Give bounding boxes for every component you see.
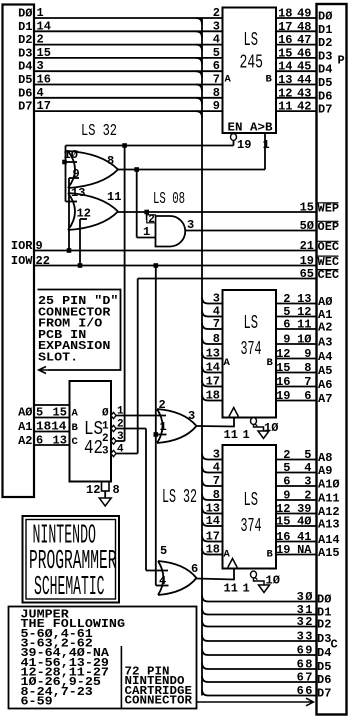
svg-text:3: 3	[213, 448, 220, 462]
svg-text:D5: D5	[318, 76, 332, 90]
wire WEC net vertical to OR3 pin1	[155, 266, 157, 435]
pin 2 bubble (LS42)	[111, 425, 116, 431]
svg-text:6: 6	[213, 59, 220, 73]
wire bus tap to U5 pin 7	[202, 323, 208, 329]
wire WEC net continues to gate4 pin4	[155, 435, 157, 586]
wire U5 pin 2 to connector	[276, 303, 316, 305]
wire LS245 B pin 17 to connector 48	[276, 30, 316, 32]
svg-text:13: 13	[278, 73, 292, 87]
wire D2 left bus row	[34, 44, 223, 46]
svg-text:12: 12	[86, 483, 100, 497]
wire LS08 pin2 stub	[146, 212, 148, 220]
svg-text:1: 1	[243, 582, 250, 596]
svg-text:4: 4	[213, 461, 220, 475]
node junction EN/pin10	[62, 160, 67, 165]
wire bus tap to connector 66 (D7 CHR)	[202, 690, 208, 696]
wire DIR vertical	[264, 133, 266, 170]
wire riser IOW to OR2 pin12	[79, 219, 81, 266]
wire U5 OE to ground	[254, 424, 264, 431]
svg-text:IOR: IOR	[11, 239, 33, 253]
svg-text:17: 17	[37, 99, 51, 113]
wire U6 pin 5 to connector	[276, 472, 316, 474]
node junction EN/IOR-tap	[122, 143, 127, 148]
svg-text:2: 2	[102, 433, 109, 445]
svg-text:1: 1	[263, 138, 270, 152]
svg-text:6-59: 6-59	[21, 696, 53, 709]
wire bus tap to connector 33 (D3 CHR)	[202, 635, 208, 641]
svg-text:13: 13	[297, 292, 311, 306]
svg-text:9: 9	[213, 99, 220, 113]
pin 1 bubble (U6 OE)	[251, 571, 257, 578]
svg-text:6: 6	[283, 475, 290, 489]
svg-text:A5: A5	[318, 364, 332, 378]
wire LS245 B pin 12 to connector 43	[276, 97, 316, 99]
svg-text:69: 69	[297, 644, 314, 658]
svg-text:8: 8	[107, 154, 114, 168]
wire CEC vertical to LS42 pin4	[137, 279, 139, 454]
wire D7 left bus row	[34, 110, 223, 112]
svg-text:6: 6	[304, 389, 311, 403]
title box inner	[26, 520, 116, 600]
svg-text:245: 245	[240, 52, 264, 74]
pin 8 stub (LS42)	[102, 482, 110, 492]
wire CEC row	[138, 278, 316, 280]
wire OR2 output / WEP row	[118, 211, 316, 213]
jumper note divider	[120, 646, 122, 709]
svg-text:47: 47	[297, 33, 311, 47]
overline WEC	[318, 255, 339, 257]
svg-text:LS 08: LS 08	[153, 190, 185, 209]
svg-text:1: 1	[102, 421, 109, 433]
wire data bus spine	[201, 18, 203, 696]
svg-text:3: 3	[304, 475, 311, 489]
wire bus tap to U5 pin 4	[202, 311, 208, 317]
wire bus tap to U6 pin 3	[202, 454, 208, 460]
node junction IOW/WEC-drop	[154, 263, 159, 268]
svg-text:66: 66	[297, 684, 314, 698]
wire LS42 pin2 right	[116, 428, 146, 430]
svg-text:A11: A11	[318, 492, 340, 506]
svg-text:IOW: IOW	[11, 254, 33, 268]
svg-text:A3: A3	[318, 336, 332, 350]
IC U6 LS374 body	[223, 445, 277, 569]
wire bus tap to connector 30 (D0 CHR)	[202, 596, 208, 602]
wire bus tap to U5 pin 8	[202, 338, 208, 344]
wire gate4 output to U6 clock	[197, 569, 235, 580]
svg-text:1Ø: 1Ø	[297, 333, 311, 347]
wire LS245 B pin 11 to connector 42	[276, 110, 316, 112]
svg-text:7: 7	[213, 73, 220, 87]
svg-text:18: 18	[206, 543, 220, 557]
wire D3 left bus row	[34, 57, 223, 59]
svg-text:12: 12	[276, 347, 290, 361]
svg-text:4: 4	[37, 86, 44, 100]
clock wedge U5	[229, 408, 238, 417]
node junction OR1out/LS08pin1	[134, 167, 139, 172]
svg-text:C: C	[72, 436, 79, 448]
svg-text:5Ø: 5Ø	[300, 219, 314, 233]
svg-text:A1: A1	[18, 420, 32, 434]
clock wedge U6	[228, 559, 237, 568]
IC U1 LS245 body	[223, 8, 277, 134]
svg-text:A7: A7	[318, 392, 332, 406]
svg-text:LS: LS	[244, 489, 259, 511]
svg-text:B: B	[267, 357, 274, 369]
pin 19 bubble (LS245 OE)	[231, 134, 237, 141]
wire D4 left bus row	[34, 70, 223, 72]
svg-text:D3: D3	[318, 49, 332, 63]
svg-text:68: 68	[297, 658, 314, 672]
wire bus tap to connector 69 (D4 CHR)	[202, 649, 208, 655]
IC U5 LS374 body	[223, 290, 277, 418]
svg-text:11: 11	[224, 428, 238, 442]
wire IOW row / WEC	[34, 265, 316, 267]
callout box 25-pin note	[38, 290, 121, 371]
svg-text:5: 5	[160, 544, 167, 558]
node D3 bus tap	[196, 58, 202, 64]
svg-text:D4: D4	[18, 60, 32, 74]
svg-text:2: 2	[213, 6, 220, 20]
svg-text:SLOT.: SLOT.	[38, 351, 78, 365]
svg-text:7: 7	[213, 474, 220, 488]
svg-text:D6: D6	[318, 89, 332, 103]
wire U6 pin 6 to connector	[276, 485, 316, 487]
wire LS42 pin3 to IOR-net riser	[116, 440, 125, 442]
svg-text:374: 374	[241, 515, 262, 537]
node junction WEP/LS08pin2	[144, 210, 149, 215]
wire U5 pin 12 to connector	[276, 358, 316, 360]
svg-text:D2: D2	[317, 618, 331, 632]
svg-text:2: 2	[283, 292, 290, 306]
pin 4 bubble (LS42)	[111, 450, 116, 456]
wire bus tap to U6 pin 14	[202, 520, 208, 526]
svg-text:2: 2	[37, 33, 44, 47]
svg-text:B: B	[267, 549, 274, 561]
node D5 bus tap	[196, 85, 202, 91]
svg-text:7: 7	[304, 375, 311, 389]
ground (LS42 pin 8)	[99, 498, 111, 506]
svg-text:LS 32: LS 32	[162, 486, 197, 508]
wire bus tap to U6 pin 4	[202, 467, 208, 473]
wire bus tap to connector 31 (D1 CHR)	[202, 609, 208, 615]
svg-text:7: 7	[213, 317, 220, 331]
svg-text:3: 3	[213, 19, 220, 33]
svg-text:13: 13	[206, 347, 220, 361]
svg-text:6: 6	[283, 318, 290, 332]
svg-text:3: 3	[102, 446, 109, 458]
svg-text:11: 11	[107, 190, 121, 204]
svg-text:46: 46	[297, 46, 311, 60]
or-gate U2B LS32 (pins 13,12 out 11)	[68, 193, 118, 230]
wire OR3 pin1 stub	[156, 434, 167, 436]
svg-text:D6: D6	[317, 673, 331, 687]
svg-text:3: 3	[213, 292, 220, 306]
svg-text:67: 67	[297, 671, 314, 685]
node D7 bus tap	[196, 111, 202, 117]
svg-text:DØ: DØ	[18, 7, 32, 21]
svg-text:AØ: AØ	[18, 406, 32, 420]
svg-text:A8: A8	[318, 451, 332, 465]
svg-text:P: P	[338, 54, 345, 68]
svg-text:2: 2	[304, 489, 311, 503]
svg-text:D2: D2	[18, 33, 32, 47]
svg-text:19: 19	[276, 389, 290, 403]
node D2 bus tap	[196, 45, 202, 51]
svg-text:41: 41	[297, 530, 311, 544]
svg-text:15: 15	[37, 46, 51, 60]
svg-text:D7: D7	[318, 103, 332, 117]
svg-text:LS 32: LS 32	[81, 122, 117, 141]
svg-text:A6: A6	[318, 378, 332, 392]
svg-text:14: 14	[278, 60, 292, 74]
svg-text:16: 16	[37, 73, 51, 87]
svg-text:D5: D5	[18, 73, 32, 87]
svg-text:33: 33	[297, 630, 314, 644]
svg-text:5: 5	[304, 448, 311, 462]
IC U4 LS42 body	[70, 381, 112, 482]
wire ground stem LS42	[104, 491, 106, 498]
wire bus tap to connector 68 (D5 CHR)	[202, 663, 208, 669]
svg-text:1: 1	[37, 6, 44, 20]
wire A0 row	[34, 417, 70, 419]
svg-text:11: 11	[224, 582, 238, 596]
svg-text:19: 19	[300, 254, 314, 268]
wire bus tap to connector 67 (D6 CHR)	[202, 676, 208, 682]
svg-text:44: 44	[297, 73, 311, 87]
wire bus tap to U5 pin 13	[202, 353, 208, 359]
svg-text:17: 17	[206, 530, 220, 544]
wire LS08 pin1 feed	[136, 170, 138, 238]
wire LS245 B pin 14 to connector 45	[276, 70, 316, 72]
svg-text:2: 2	[159, 398, 166, 412]
svg-text:D3: D3	[18, 46, 32, 60]
svg-text:43: 43	[297, 86, 311, 100]
node junction WEC/OR3 pin1	[154, 432, 159, 437]
svg-text:A: A	[224, 549, 231, 561]
wire OR1 pin10 input	[65, 161, 78, 163]
wire U6 pin 16 to connector	[276, 541, 316, 543]
svg-text:17: 17	[206, 375, 220, 389]
pin 1 bubble (U5 OE)	[251, 418, 257, 425]
wire D0 left bus row	[34, 17, 223, 19]
svg-text:5: 5	[213, 46, 220, 60]
svg-text:48: 48	[297, 20, 311, 34]
overline OEC	[318, 240, 339, 242]
jumper note box	[9, 607, 197, 709]
svg-text:A: A	[72, 408, 79, 420]
svg-text:B: B	[72, 422, 79, 434]
wire U6 pin 12 to connector	[276, 513, 316, 515]
svg-text:9: 9	[304, 347, 311, 361]
svg-text:OEC: OEC	[318, 240, 340, 254]
arrow jumper box to connector	[197, 698, 314, 706]
wire LS42 pin2 drop to gate4 pin5	[145, 429, 147, 571]
svg-text:3: 3	[37, 59, 44, 73]
svg-text:D4: D4	[318, 63, 332, 77]
wire vertical IOR-net to LS42 pin3	[124, 146, 126, 442]
wire U5 pin 5 to connector	[276, 316, 316, 318]
svg-text:45: 45	[297, 60, 311, 74]
wire U6 OE to ground	[254, 578, 265, 585]
node junction IOW/pin12riser	[78, 263, 83, 268]
svg-text:6: 6	[36, 434, 43, 448]
svg-text:DØ: DØ	[318, 10, 332, 24]
wire D6 left bus row	[34, 97, 223, 99]
svg-text:11: 11	[278, 100, 292, 114]
svg-text:8: 8	[213, 332, 220, 346]
wire bus tap to U6 pin 17	[202, 536, 208, 542]
svg-text:A9: A9	[318, 464, 332, 478]
wire OE bubble stub	[233, 140, 235, 145]
svg-text:D2: D2	[318, 36, 332, 50]
svg-text:A: A	[224, 357, 231, 369]
wire OR2 pin13 input	[66, 201, 78, 203]
svg-text:12: 12	[278, 86, 292, 100]
or-gate U2D LS32 (pins 5,4 out 6)	[158, 561, 197, 595]
wire U6 pin 9 to connector	[276, 499, 316, 501]
svg-text:D7: D7	[317, 687, 331, 701]
pin 1 bubble (LS42)	[111, 412, 116, 418]
wire A1 row	[34, 431, 70, 433]
svg-text:A4: A4	[318, 350, 332, 364]
wire EN net left vertical	[65, 146, 67, 202]
svg-text:A13: A13	[318, 518, 340, 532]
svg-text:3: 3	[188, 409, 195, 423]
svg-text:14: 14	[37, 19, 51, 33]
svg-text:1: 1	[143, 225, 150, 239]
svg-text:D6: D6	[18, 86, 32, 100]
node D0 bus tap	[196, 18, 202, 24]
wire LS245 B pin 18 to connector 49	[276, 17, 316, 19]
svg-text:A15: A15	[318, 546, 340, 560]
svg-text:CONNECTOR: CONNECTOR	[125, 695, 193, 708]
svg-text:16: 16	[278, 33, 292, 47]
pin 2 label box	[147, 215, 156, 223]
node D1 bus tap	[196, 31, 202, 37]
node D4 bus tap	[196, 71, 202, 77]
svg-text:15: 15	[53, 406, 67, 420]
svg-text:A: A	[225, 74, 232, 86]
svg-text:15: 15	[276, 361, 290, 375]
svg-text:DØ: DØ	[317, 593, 331, 607]
svg-text:1: 1	[243, 428, 250, 442]
svg-text:5: 5	[283, 461, 290, 475]
svg-text:A2: A2	[18, 434, 32, 448]
and-gate U3A LS08 (pins 1,2 out 3)	[156, 216, 186, 247]
svg-text:4: 4	[213, 33, 220, 47]
svg-text:2: 2	[283, 448, 290, 462]
svg-text:22: 22	[36, 254, 50, 268]
or-gate U2C LS32 (pins 2,1 out 3)	[157, 409, 197, 443]
wire bus tap to U5 pin 3	[202, 298, 208, 304]
overline CEC	[318, 269, 339, 271]
svg-text:WEP: WEP	[318, 202, 340, 216]
svg-text:21: 21	[300, 239, 314, 253]
svg-text:B: B	[266, 74, 273, 86]
svg-text:42: 42	[84, 437, 103, 459]
svg-text:EN A>B: EN A>B	[228, 121, 273, 135]
svg-text:D3: D3	[317, 632, 331, 646]
svg-text:NA: NA	[297, 543, 312, 557]
wire U5 pin 15 to connector	[276, 372, 316, 374]
svg-text:SCHEMATIC: SCHEMATIC	[34, 573, 105, 603]
wire IOR row / OEC	[34, 250, 316, 252]
svg-text:D7: D7	[18, 100, 32, 114]
overline WEP	[318, 202, 339, 204]
wire EN net horizontal (y=145.5)	[66, 145, 234, 147]
wire bus tap to U5 pin 18	[202, 395, 208, 401]
wire U5 pin 9 to connector	[276, 343, 316, 345]
wire LS08 output / OEP row	[186, 230, 317, 232]
25-pin D connector box (left)	[3, 5, 35, 498]
svg-text:D5: D5	[317, 660, 331, 674]
wire A-cell top line	[34, 404, 70, 406]
wire LS245 B pin 15 to connector 46	[276, 57, 316, 59]
wire bus tap to U5 pin 14	[202, 367, 208, 373]
wire bus tap to U6 pin 18	[202, 549, 208, 555]
svg-text:8: 8	[304, 361, 311, 375]
svg-text:8: 8	[213, 86, 220, 100]
svg-text:4: 4	[159, 574, 166, 588]
ground (U5 OE)	[258, 431, 269, 439]
svg-text:8: 8	[113, 483, 120, 497]
ground (U6 OE)	[259, 585, 270, 593]
svg-text:5: 5	[36, 406, 43, 420]
svg-text:D4: D4	[317, 646, 331, 660]
svg-text:Ø: Ø	[102, 408, 109, 420]
svg-text:19: 19	[276, 543, 290, 557]
wire OR3 output to U5 clock	[197, 418, 235, 427]
svg-text:A1Ø: A1Ø	[318, 478, 340, 492]
wire U5 pin 19 to connector	[276, 400, 316, 402]
svg-text:1: 1	[160, 420, 167, 434]
svg-text:LS: LS	[244, 312, 259, 334]
svg-text:AØ: AØ	[318, 295, 332, 309]
wire bus tap to U6 pin 13	[202, 508, 208, 514]
svg-text:17: 17	[278, 20, 292, 34]
svg-text:C: C	[331, 638, 338, 652]
wire OR1 output to DIR	[118, 169, 265, 171]
wire riser IOR to OR1 pin9	[68, 178, 70, 251]
svg-text:65: 65	[300, 267, 314, 281]
svg-text:16: 16	[276, 530, 290, 544]
or-gate U2A LS32 (pins 10,9 out 8)	[68, 151, 118, 188]
svg-text:374: 374	[241, 338, 262, 360]
svg-text:32: 32	[297, 615, 314, 629]
svg-text:9: 9	[36, 239, 43, 253]
pin 3 bubble (LS42)	[111, 438, 116, 444]
wire LS245 B pin 16 to connector 47	[276, 44, 316, 46]
svg-text:D1: D1	[318, 23, 332, 37]
wire U5 pin 16 to connector	[276, 386, 316, 388]
svg-text:WEC: WEC	[318, 255, 340, 269]
wire bus tap to connector 32 (D2 CHR)	[202, 621, 208, 627]
wire LS42 pin1 to OR3 pin2	[116, 415, 166, 417]
svg-text:A14: A14	[318, 533, 340, 547]
svg-text:1Ø: 1Ø	[64, 148, 78, 162]
svg-text:18: 18	[206, 389, 220, 403]
node junction IOR/pin9riser	[67, 248, 72, 253]
svg-text:15: 15	[278, 46, 292, 60]
wire U6 pin 19 to connector	[276, 554, 316, 556]
wire U5 pin 6 to connector	[276, 328, 316, 330]
wire D1 left bus row	[34, 30, 223, 32]
svg-text:8: 8	[213, 488, 220, 502]
wire A2 row	[34, 444, 70, 446]
svg-text:18: 18	[278, 7, 292, 21]
svg-text:15: 15	[300, 201, 314, 215]
wire D5 left bus row	[34, 84, 223, 86]
